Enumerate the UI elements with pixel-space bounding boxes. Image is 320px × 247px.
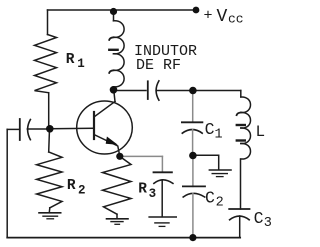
svg-text:3: 3 bbox=[149, 187, 157, 201]
svg-text:C: C bbox=[205, 189, 215, 208]
svg-text:V: V bbox=[217, 7, 228, 27]
svg-text:+: + bbox=[204, 8, 213, 25]
svg-text:R: R bbox=[138, 182, 147, 198]
svg-text:DE RF: DE RF bbox=[136, 57, 181, 74]
svg-text:3: 3 bbox=[264, 216, 272, 231]
svg-text:R: R bbox=[66, 52, 75, 68]
svg-text:R: R bbox=[67, 178, 76, 194]
svg-text:L: L bbox=[256, 123, 266, 141]
svg-text:2: 2 bbox=[78, 184, 86, 198]
svg-text:2: 2 bbox=[216, 196, 224, 211]
svg-text:C: C bbox=[254, 209, 264, 228]
svg-text:1: 1 bbox=[215, 128, 223, 143]
svg-text:cc: cc bbox=[228, 12, 244, 27]
svg-text:C: C bbox=[205, 120, 215, 139]
svg-text:1: 1 bbox=[77, 57, 85, 71]
